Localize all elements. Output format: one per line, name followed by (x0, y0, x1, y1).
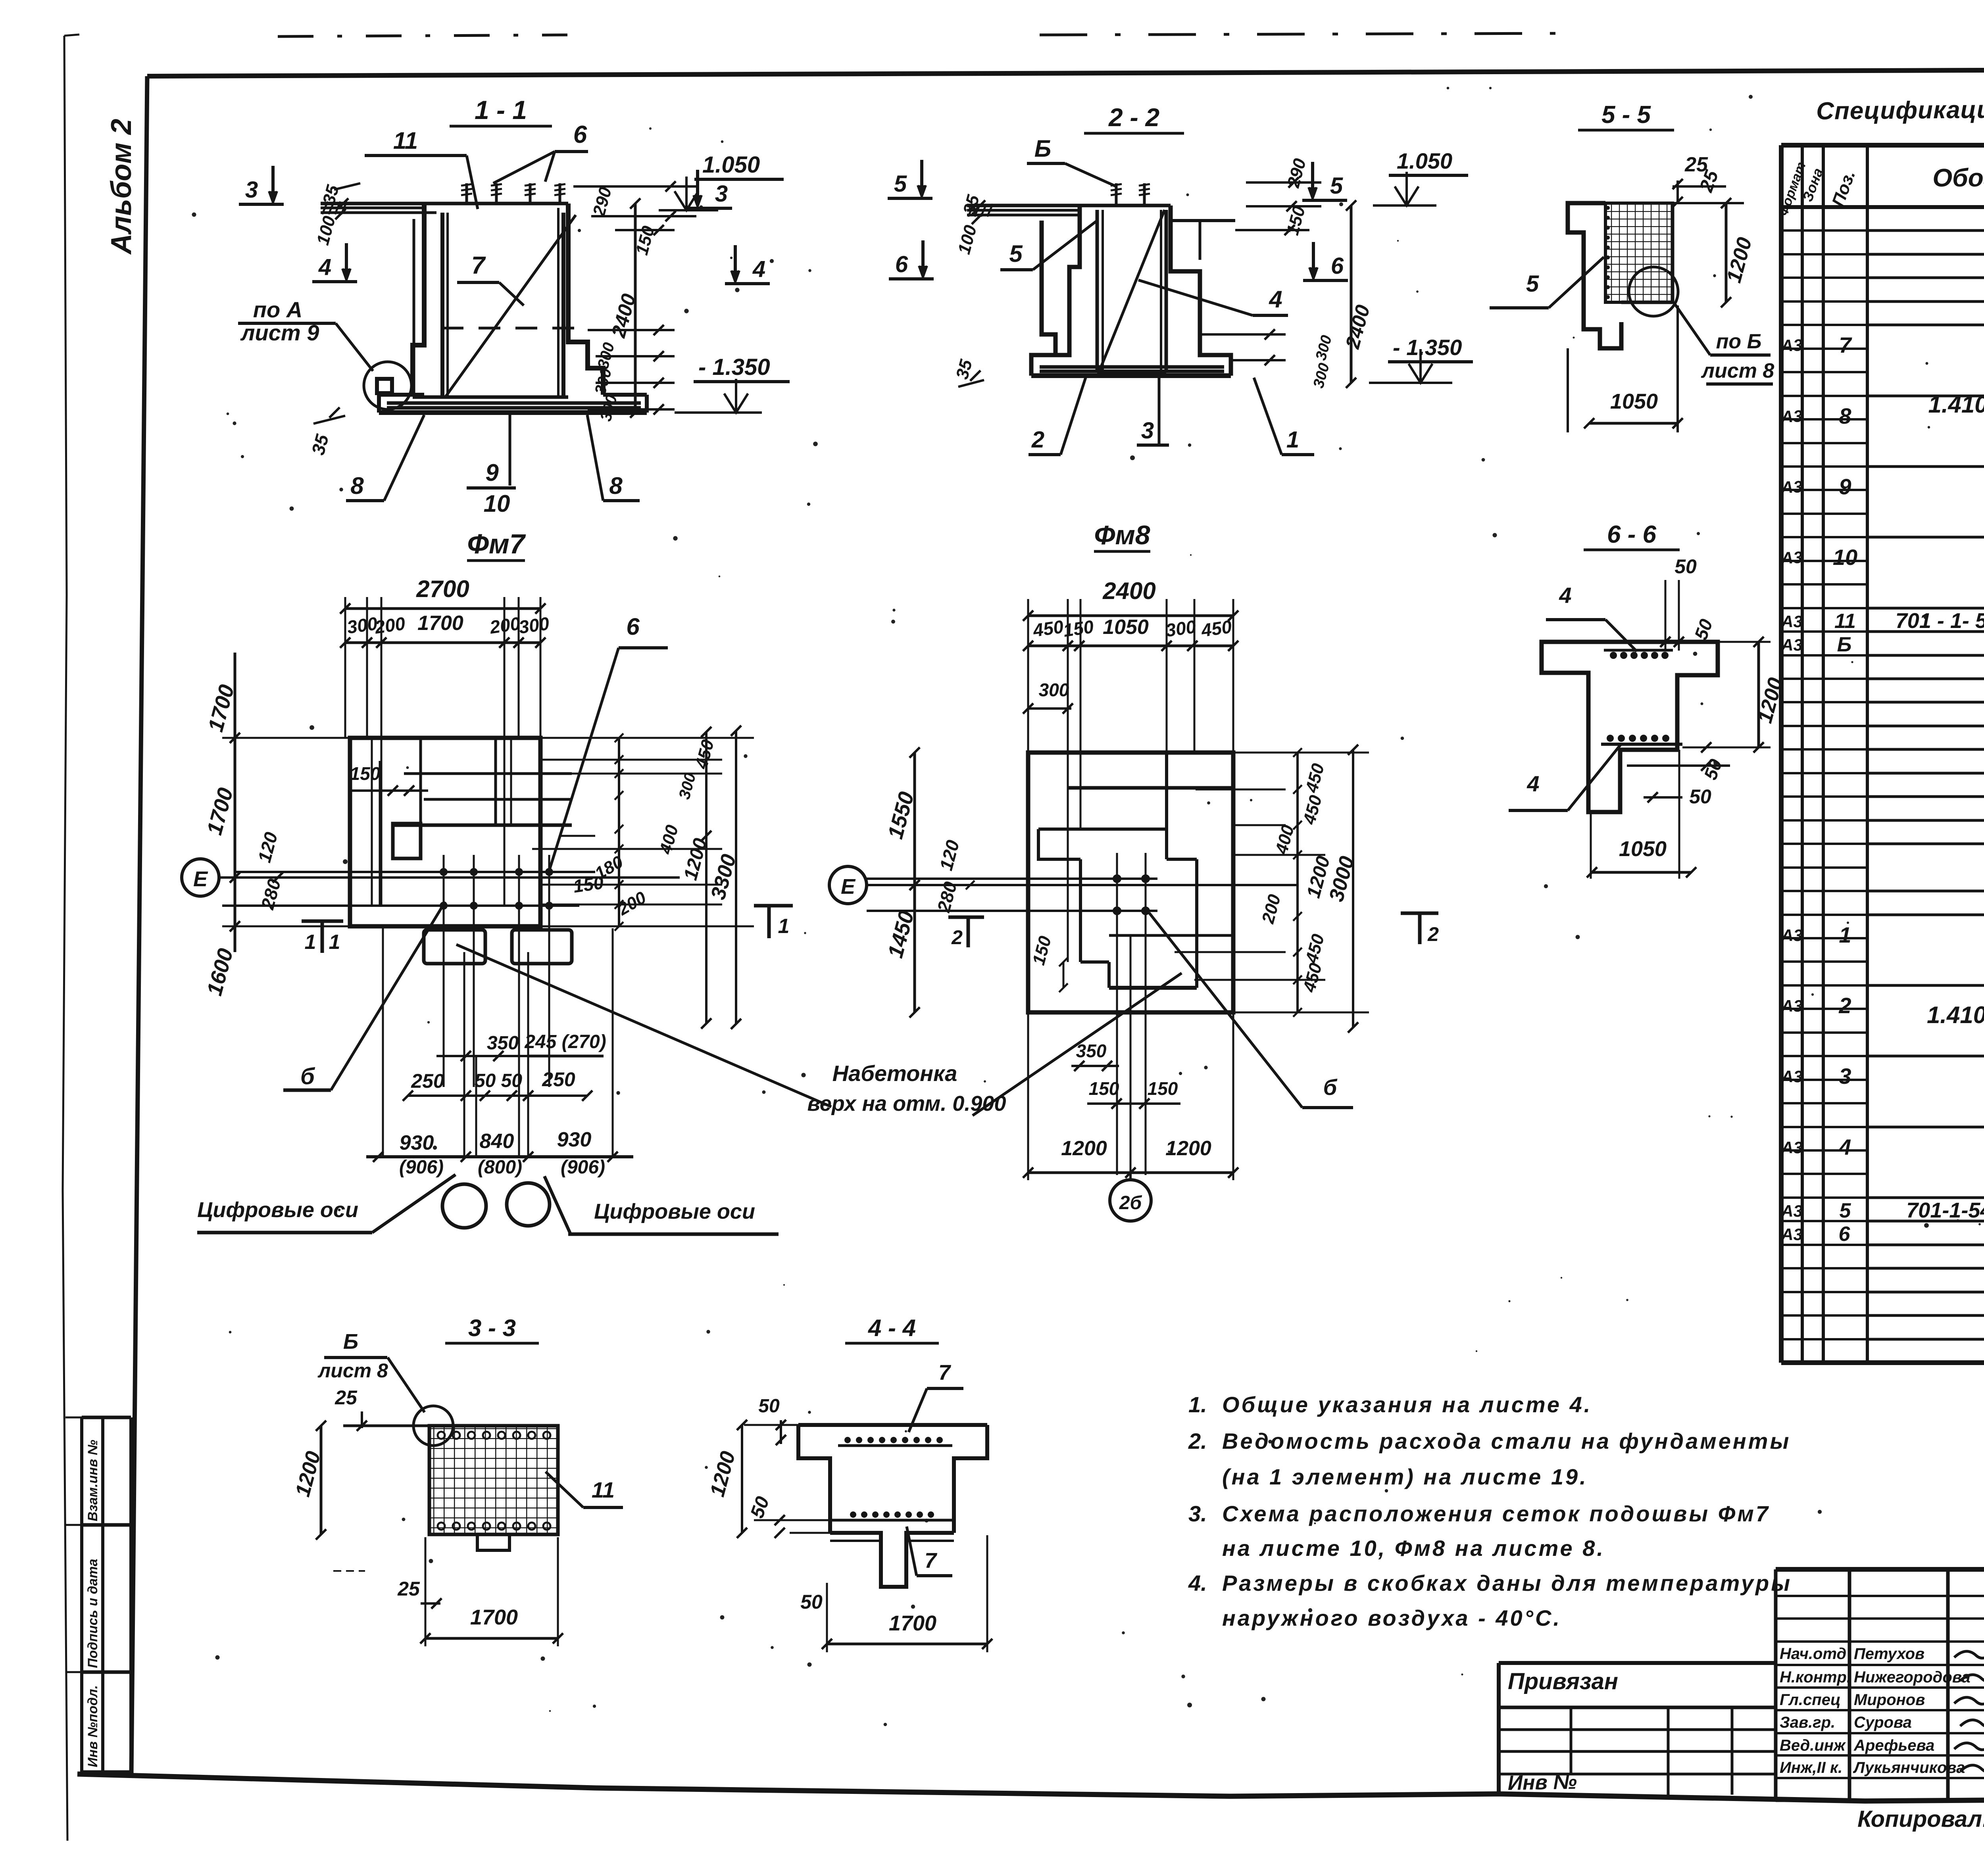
svg-text:Привязан: Привязан (1508, 1669, 1618, 1694)
svg-text:3: 3 (1141, 418, 1154, 444)
svg-text:Цифровые оси: Цифровые оси (197, 1198, 358, 1222)
svg-text:2: 2 (1031, 427, 1044, 453)
svg-text:2400: 2400 (1102, 578, 1155, 604)
svg-text:Набетонка: Набетонка (832, 1061, 957, 1086)
svg-text:2700: 2700 (416, 576, 469, 602)
svg-text:1700: 1700 (889, 1611, 936, 1635)
svg-text:лист 8: лист 8 (317, 1359, 388, 1382)
svg-text:- 1.350: - 1.350 (1393, 335, 1462, 360)
svg-text:(906): (906) (561, 1157, 605, 1178)
svg-text:1 - 1: 1 - 1 (475, 95, 527, 125)
nabetonka note (456, 945, 1182, 1116)
svg-text:3: 3 (1839, 1064, 1851, 1089)
svg-text:9: 9 (1839, 474, 1851, 499)
svg-text:2: 2 (951, 926, 963, 949)
svg-text:А3: А3 (1781, 926, 1803, 945)
svg-text:1200: 1200 (1061, 1137, 1107, 1160)
svg-text:300: 300 (346, 613, 379, 637)
svg-text:11: 11 (1834, 610, 1856, 633)
svg-text:1050: 1050 (1103, 616, 1149, 639)
svg-text:3: 3 (715, 181, 728, 207)
svg-text:450: 450 (1200, 616, 1233, 641)
svg-text:9: 9 (485, 459, 499, 486)
svg-text:А3: А3 (1781, 1225, 1803, 1244)
svg-text:1700: 1700 (417, 612, 463, 635)
svg-text:3.: 3. (1188, 1501, 1207, 1526)
svg-text:1.050: 1.050 (702, 152, 760, 178)
svg-text:4: 4 (1269, 286, 1282, 313)
svg-text:50 50: 50 50 (475, 1070, 522, 1091)
svg-text:50: 50 (1674, 555, 1697, 578)
top dash marks (278, 35, 567, 36)
svg-text:2б: 2б (1119, 1192, 1142, 1214)
svg-text:2: 2 (1838, 993, 1851, 1018)
svg-text:7: 7 (471, 252, 486, 279)
svg-text:930: 930 (557, 1128, 592, 1151)
svg-text:(на 1 элемент) на листе 19.: (на 1 элемент) на листе 19. (1222, 1464, 1588, 1489)
svg-text:Обозначение: Обозначение (1932, 163, 1984, 192)
svg-text:2.: 2. (1188, 1429, 1207, 1454)
stamp column (65, 1417, 131, 1772)
svg-text:Подпись и дата: Подпись и дата (85, 1559, 100, 1668)
svg-text:4 - 4: 4 - 4 (868, 1315, 916, 1341)
section 4-4 (706, 1315, 992, 1652)
svg-text:4.: 4. (1188, 1571, 1207, 1596)
svg-text:по А: по А (253, 297, 302, 322)
svg-text:200: 200 (373, 613, 407, 637)
scan speckles (192, 87, 1984, 1726)
svg-text:А3: А3 (1781, 612, 1803, 631)
svg-text:А3: А3 (1781, 1202, 1803, 1220)
svg-text:300: 300 (1164, 616, 1198, 641)
svg-text:1.410-3 вып. 1: 1.410-3 вып. 1 (1928, 391, 1984, 418)
svg-text:б: б (1323, 1075, 1338, 1100)
svg-text:4: 4 (1559, 583, 1571, 608)
svg-text:по Б: по Б (1716, 330, 1762, 353)
svg-text:840: 840 (480, 1130, 514, 1153)
spec table header text (1776, 153, 1984, 218)
svg-text:150: 150 (1148, 1078, 1178, 1099)
svg-text:5: 5 (1526, 271, 1539, 297)
svg-text:Инв №подл.: Инв №подл. (85, 1685, 100, 1767)
svg-text:150: 150 (350, 763, 381, 784)
svg-text:Е: Е (841, 875, 856, 899)
svg-text:Схема расположения сеток под: Схема расположения сеток подошвы Фм7 (1222, 1501, 1770, 1526)
svg-text:4: 4 (318, 254, 331, 280)
svg-text:5 - 5: 5 - 5 (1601, 101, 1651, 129)
svg-text:1: 1 (329, 931, 340, 954)
svg-text:Сурова: Сурова (1854, 1714, 1912, 1731)
svg-text:25: 25 (335, 1386, 358, 1409)
section 1-1 (238, 95, 790, 517)
section 3-3 (291, 1315, 623, 1646)
svg-text:Зав.гр.: Зав.гр. (1780, 1714, 1835, 1731)
svg-text:Е: Е (193, 867, 208, 891)
svg-text:1.: 1. (1188, 1392, 1207, 1417)
svg-text:- 1.350: - 1.350 (698, 354, 770, 380)
svg-text:930: 930 (400, 1131, 434, 1154)
svg-text:А3: А3 (1780, 407, 1803, 426)
svg-text:10: 10 (1833, 545, 1857, 570)
svg-text:1: 1 (1286, 427, 1299, 453)
svg-text:А3: А3 (1781, 1138, 1803, 1157)
svg-text:701 - 1- 54.89 КЖИ 023 - 06: 701 - 1- 54.89 КЖИ 023 - 06 (1896, 609, 1984, 633)
svg-text:2 - 2: 2 - 2 (1108, 103, 1159, 132)
svg-text:450: 450 (1031, 616, 1065, 641)
svg-text:Фм7: Фм7 (467, 528, 526, 559)
svg-text:5: 5 (1009, 240, 1023, 267)
svg-text:Петухов: Петухов (1854, 1645, 1924, 1663)
spec table content FM8 (1781, 816, 1984, 1340)
svg-text:250: 250 (542, 1068, 575, 1091)
svg-text:2: 2 (1427, 923, 1439, 945)
svg-text:Взам.инв №: Взам.инв № (85, 1440, 100, 1521)
section 2-2 (888, 103, 1473, 455)
svg-text:7: 7 (1839, 332, 1852, 357)
svg-text:Б: Б (1837, 633, 1852, 656)
svg-text:50: 50 (758, 1396, 780, 1417)
svg-text:Размеры в скобках даны для: Размеры в скобках даны для температуры (1222, 1571, 1792, 1596)
svg-text:Нижегородова: Нижегородова (1854, 1669, 1971, 1686)
svg-text:245 (270): 245 (270) (524, 1031, 606, 1052)
svg-text:8: 8 (350, 472, 364, 499)
svg-text:Фм8: Фм8 (1094, 520, 1150, 550)
svg-text:10: 10 (484, 490, 510, 517)
svg-text:Копировал: Фрей: Копировал: Фрей (1857, 1806, 1984, 1832)
svg-text:50: 50 (800, 1591, 823, 1613)
svg-text:Н.контр.: Н.контр. (1780, 1669, 1851, 1686)
svg-text:Ведомость расхода стали на фу: Ведомость расхода стали на фундаменты (1222, 1429, 1791, 1454)
svg-text:5: 5 (1840, 1199, 1851, 1222)
svg-text:Общие указания на листе 4.: Общие указания на листе 4. (1222, 1392, 1592, 1417)
section 6-6 (1509, 521, 1788, 879)
svg-text:6: 6 (1839, 1223, 1851, 1246)
svg-text:250: 250 (411, 1070, 444, 1092)
svg-text:4: 4 (1526, 771, 1539, 796)
svg-text:150: 150 (572, 872, 605, 897)
svg-text:Лукьянчикова: Лукьянчикова (1853, 1759, 1965, 1776)
svg-text:6 - 6: 6 - 6 (1607, 521, 1657, 548)
svg-text:б: б (300, 1064, 315, 1089)
svg-text:1: 1 (1839, 922, 1851, 947)
svg-text:1200: 1200 (1165, 1137, 1211, 1160)
svg-text:7: 7 (938, 1361, 952, 1384)
svg-text:Инж,II к.: Инж,II к. (1780, 1759, 1842, 1776)
svg-text:Б: Б (343, 1330, 358, 1354)
svg-text:1.410-3 Вып. 1: 1.410-3 Вып. 1 (1927, 1002, 1984, 1028)
svg-text:150: 150 (1089, 1078, 1119, 1099)
svg-text:6: 6 (1331, 253, 1344, 279)
svg-text:Вед.инж: Вед.инж (1780, 1737, 1846, 1754)
spec table content FM7 (1780, 204, 1984, 751)
sheet edge (63, 35, 79, 1841)
svg-text:(906): (906) (399, 1157, 444, 1178)
svg-text:11: 11 (592, 1477, 615, 1502)
svg-text:5: 5 (894, 171, 907, 197)
svg-text:6: 6 (573, 121, 587, 148)
svg-text:1050: 1050 (1610, 390, 1658, 413)
svg-text:25: 25 (397, 1578, 420, 1600)
svg-text:1700: 1700 (470, 1605, 518, 1629)
spec table grid (1781, 145, 1984, 1363)
svg-text:А3: А3 (1781, 636, 1803, 654)
svg-text:4: 4 (1838, 1135, 1851, 1160)
svg-text:3: 3 (245, 177, 258, 203)
svg-text:(800): (800) (478, 1157, 522, 1178)
svg-text:Арефьева: Арефьева (1853, 1737, 1934, 1754)
plan Fm7 (182, 576, 793, 1234)
svg-text:Миронов: Миронов (1854, 1691, 1925, 1709)
svg-text:А3: А3 (1780, 548, 1803, 567)
title block (1499, 1569, 1984, 1800)
svg-text:300: 300 (517, 613, 551, 637)
section 5-5 (1490, 101, 1774, 432)
svg-text:Б: Б (1034, 135, 1051, 162)
svg-text:350: 350 (1076, 1041, 1107, 1061)
svg-text:1050: 1050 (1619, 837, 1667, 861)
svg-text:Инв №: Инв № (1507, 1770, 1577, 1795)
svg-text:50: 50 (1689, 785, 1711, 808)
svg-text:1: 1 (778, 915, 790, 938)
svg-text:7: 7 (925, 1549, 938, 1573)
svg-text:8: 8 (1839, 403, 1851, 428)
svg-text:Альбом 2: Альбом 2 (106, 119, 137, 255)
svg-text:Гл.спец: Гл.спец (1780, 1691, 1841, 1709)
svg-text:8: 8 (609, 472, 623, 499)
svg-text:11: 11 (393, 127, 418, 154)
plan Fm8 (829, 578, 1439, 1221)
svg-text:300: 300 (1039, 680, 1069, 700)
svg-text:А3: А3 (1780, 336, 1803, 355)
svg-text:1: 1 (305, 931, 316, 954)
svg-text:наружного воздуха - 40°С.: наружного воздуха - 40°С. (1222, 1605, 1561, 1630)
svg-text:1.050: 1.050 (1397, 148, 1452, 173)
svg-text:4: 4 (752, 256, 765, 282)
svg-text:лист 8: лист 8 (1701, 359, 1774, 382)
svg-text:А3: А3 (1781, 1067, 1803, 1086)
svg-text:3 - 3: 3 - 3 (468, 1315, 516, 1341)
svg-text:А3: А3 (1780, 477, 1803, 497)
svg-text:Нач.отд: Нач.отд (1780, 1645, 1846, 1663)
svg-text:6: 6 (895, 252, 908, 277)
svg-text:5: 5 (1330, 173, 1343, 199)
notes (1188, 1392, 1792, 1630)
svg-text:А3: А3 (1781, 997, 1803, 1015)
svg-text:701-1-54.89 КЖИ 023-01: 701-1-54.89 КЖИ 023-01 (1906, 1198, 1984, 1222)
svg-text:на листе 10, Фм8 на листе: на листе 10, Фм8 на листе 8. (1222, 1536, 1605, 1561)
svg-text:Цифровые оси: Цифровые оси (594, 1200, 755, 1223)
svg-text:6: 6 (626, 613, 640, 640)
